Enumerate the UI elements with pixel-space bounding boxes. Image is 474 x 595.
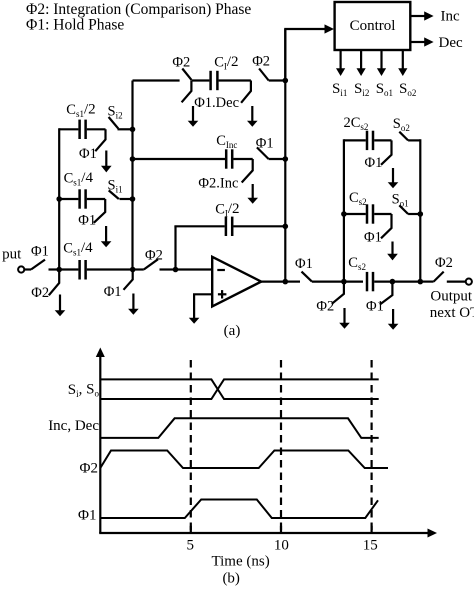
svg-text:Φ1: Φ1	[365, 155, 383, 171]
switch Si1	[109, 190, 119, 199]
dashed gridline 5ns	[190, 360, 192, 531]
junction outer rail bottom	[418, 279, 424, 285]
svg-text:Φ1: Φ1	[256, 135, 274, 151]
junction bus CInc branch	[130, 156, 136, 162]
svg-text:CI/2: CI/2	[214, 54, 238, 72]
svg-text:Φ2: Φ2	[145, 247, 163, 263]
ground arrow at node D	[343, 308, 345, 324]
svg-text:Φ1: Φ1	[364, 229, 382, 245]
wire bus to CInc	[133, 158, 226, 160]
capacitor Cs1/4 middle plates	[78, 189, 81, 208]
wire input terminal to switch	[24, 268, 31, 270]
wire output node to PHI1 switch	[285, 281, 300, 283]
wire op-amp output bus to Control input	[285, 29, 325, 81]
svg-text:Dec: Dec	[439, 35, 463, 51]
junction left rail middle	[56, 196, 62, 202]
junction bus Si2	[130, 127, 136, 133]
svg-text:Inc, Dec: Inc, Dec	[48, 418, 99, 434]
wire 2Cs2 branch horizontal	[344, 139, 366, 141]
svg-text:(b): (b)	[222, 571, 240, 587]
capacitor Cs2 mid plates	[366, 204, 369, 223]
wire series switch to node C	[160, 268, 176, 270]
switch PHI1 to ground at node E	[380, 282, 393, 305]
capacitor CI/2 top plates	[209, 71, 212, 90]
wire So2 to outer rail	[408, 139, 420, 141]
switch PHI2.Inc discharge	[242, 159, 253, 183]
wire So1 to outer rail	[408, 213, 420, 215]
Si1 control output arrow	[340, 51, 342, 70]
junction right rail Cs2 mid	[341, 211, 347, 217]
Dec output arrow	[410, 41, 425, 43]
svg-text:Φ2: Φ2	[435, 255, 453, 271]
svg-text:Output: Output	[430, 289, 473, 305]
switch discharge right of CI/2 top	[241, 81, 251, 103]
wire top-left branch horizontal	[59, 128, 78, 130]
axis tick 5ns	[190, 526, 192, 533]
svg-text:Φ1: Hold Phase: Φ1: Hold Phase	[26, 17, 124, 34]
svg-text:Φ1: Φ1	[295, 256, 313, 272]
junction output bus CInc	[283, 156, 289, 162]
wire node E to outer rail	[392, 281, 420, 283]
ground arrow Cs2 mid	[391, 242, 393, 255]
svg-text:Φ1: Φ1	[366, 298, 384, 314]
node C summing node	[173, 267, 179, 273]
wire 2Cs2 right plate	[374, 139, 391, 141]
ground arrow 2Cs2	[392, 168, 394, 183]
wire sampling bus vertical	[131, 81, 133, 270]
svg-text:Φ2: Φ2	[316, 298, 334, 314]
svg-text:Φ2: Φ2	[172, 55, 190, 71]
ground arrow on Cs1/2 branch	[105, 151, 107, 167]
wire node C to op-amp inverting input	[176, 268, 213, 270]
capacitor Cs1/4 bottom plates	[78, 260, 81, 280]
wire op-amp plus input to ground	[194, 294, 212, 318]
svg-text:(a): (a)	[224, 323, 241, 339]
timing horizontal axis	[99, 532, 428, 534]
switch PHI1.Dec left discharge	[182, 81, 192, 103]
wire Si1 to bus	[120, 198, 133, 200]
junction output bus top branch	[283, 78, 289, 84]
switch PHI1 to ground on Cs1/2 branch	[95, 129, 105, 151]
switch PHI2 top right	[259, 69, 269, 81]
dashed gridline 10ns	[280, 360, 282, 531]
waveform Si So line 2	[100, 379, 378, 399]
junction output bus feedback	[283, 224, 289, 230]
wire Cs2 mid branch horizontal	[344, 213, 366, 215]
node E	[390, 279, 396, 285]
node B	[130, 267, 136, 273]
wire left rail node A up	[58, 128, 60, 269]
ground arrow op-amp plus	[189, 318, 200, 324]
wire node D to Cs2 bottom	[344, 281, 363, 283]
capacitor Cs2 bottom plates	[366, 272, 369, 291]
switch PHI1 CInc to bus	[257, 147, 269, 159]
wire outer rail vertical	[419, 139, 421, 281]
So2 control output arrow	[402, 51, 404, 70]
Inc output arrow	[410, 15, 425, 17]
ground arrow PHI1.Dec left	[192, 106, 194, 122]
op-amp plus sign	[218, 293, 227, 295]
wire PHI2 top right to output bus	[269, 79, 286, 81]
op-amp minus sign	[217, 269, 225, 271]
svg-text:Φ1.Dec: Φ1.Dec	[194, 95, 239, 111]
wire CInc right plate	[233, 158, 252, 160]
ground arrow on Cs1/4 branch	[105, 226, 107, 242]
ground arrow right of CI/2 top	[251, 106, 253, 122]
So1 control output arrow	[380, 51, 382, 70]
node A	[56, 267, 62, 273]
wire outer rail to PHI2 output switch	[420, 281, 433, 283]
switch PHI1 to ground on Cs1/4 branch	[94, 199, 105, 223]
wire Cs2 mid right plate	[374, 213, 391, 215]
output terminal	[466, 279, 472, 285]
ground arrow below node A	[59, 295, 61, 312]
switch PHI1 to ground at node B	[124, 270, 133, 290]
wire node B to series switch	[133, 268, 144, 270]
svg-text:next OT: next OT	[430, 305, 474, 321]
switch PHI2 to ground at node D	[332, 282, 344, 304]
Si2 control output arrow	[360, 51, 362, 70]
svg-text:Φ1: Φ1	[104, 284, 122, 300]
input terminal	[18, 266, 24, 272]
switch So2	[399, 132, 408, 141]
axis tick 10ns	[280, 526, 282, 533]
wire feedback to output bus	[233, 225, 285, 227]
capacitor CInc plates	[225, 149, 228, 168]
wire middle branch horizontal	[59, 198, 78, 200]
wire right rail vertical	[343, 139, 345, 281]
svg-text:Time (ns): Time (ns)	[211, 554, 269, 570]
ground arrow below node B	[132, 294, 134, 310]
dashed gridline 15ns	[371, 360, 373, 531]
switch PHI2 to ground at node A	[49, 270, 59, 296]
svg-text:Control: Control	[350, 18, 396, 34]
capacitor Cs1/2 plates	[78, 120, 81, 139]
wire to CI/2 top cap	[191, 79, 209, 81]
svg-text:Φ2: Integration (Comparison) P: Φ2: Integration (Comparison) Phase	[26, 1, 251, 18]
wire to output terminal	[447, 281, 466, 283]
node D	[341, 279, 347, 285]
switch Si2	[109, 117, 119, 129]
ground arrow PHI2.Inc	[252, 184, 254, 199]
capacitor CI/2 feedback plates	[225, 217, 228, 236]
timing vertical axis	[99, 355, 101, 533]
switch So1	[399, 205, 408, 214]
svg-text:Φ2: Φ2	[80, 461, 98, 477]
waveform PHI2	[100, 451, 388, 469]
switch PHI2 output	[434, 272, 444, 282]
switch PHI1 output	[302, 272, 312, 282]
control block U1	[335, 2, 411, 50]
svg-text:Φ1: Φ1	[31, 243, 49, 259]
waveform PHI1	[100, 500, 378, 519]
switch PHI1 discharge Cs2 mid	[381, 214, 392, 238]
axis tick 15ns	[371, 526, 373, 533]
switch PHI1 input	[31, 260, 45, 270]
svg-text:put: put	[2, 247, 22, 263]
svg-text:5: 5	[187, 538, 195, 554]
wire bus top to PHI2 switch	[133, 79, 180, 81]
wire output bus vertical	[284, 29, 286, 282]
capacitor 2Cs2 plates	[366, 131, 369, 150]
waveform Inc Dec	[100, 418, 378, 438]
wire CI/2 top right plate	[219, 79, 251, 81]
svg-text:Φ2.Inc: Φ2.Inc	[198, 176, 238, 192]
svg-text:Φ2: Φ2	[252, 54, 270, 70]
ground arrow at node E	[392, 309, 394, 325]
switch PHI1 discharge 2Cs2	[381, 140, 392, 164]
svg-text:Φ1: Φ1	[78, 508, 96, 524]
svg-text:Φ1: Φ1	[79, 146, 97, 162]
wire Cs1/4 middle right plate to switches	[87, 198, 105, 200]
junction bus Si1	[130, 196, 136, 202]
wire Si2 to bus	[118, 128, 133, 130]
capacitor Cs1/4 bottom: left wire	[59, 268, 78, 270]
wire switch to node A	[49, 268, 60, 270]
node output	[283, 279, 289, 285]
wire feedback horizontal left	[174, 225, 224, 227]
op-amp U1 triangle	[212, 257, 261, 307]
wire Cs1/2 right plate to switches	[87, 128, 106, 130]
svg-text:Φ2: Φ2	[31, 285, 49, 301]
wire Cs2 bottom right plate to node E	[374, 281, 392, 283]
switch PHI2 series to op-amp	[144, 259, 158, 269]
wire PHI1 output to node D	[312, 281, 344, 283]
switch PHI2 top left	[182, 69, 191, 80]
wire op-amp output	[261, 281, 285, 283]
wire node C up to feedback	[174, 226, 176, 269]
svg-text:CI/2: CI/2	[215, 201, 239, 219]
waveform Si So line 1	[100, 379, 378, 399]
svg-text:15: 15	[363, 538, 378, 554]
capacitor Cs1/4 bottom: right wire to node B	[87, 268, 133, 270]
svg-text:Φ1: Φ1	[78, 212, 96, 228]
svg-text:10: 10	[274, 538, 289, 554]
svg-text:Inc: Inc	[441, 9, 460, 25]
junction outer rail So1	[418, 211, 424, 217]
wire PHI1 CInc to output bus	[269, 158, 286, 160]
arrowhead into Control	[325, 24, 335, 33]
